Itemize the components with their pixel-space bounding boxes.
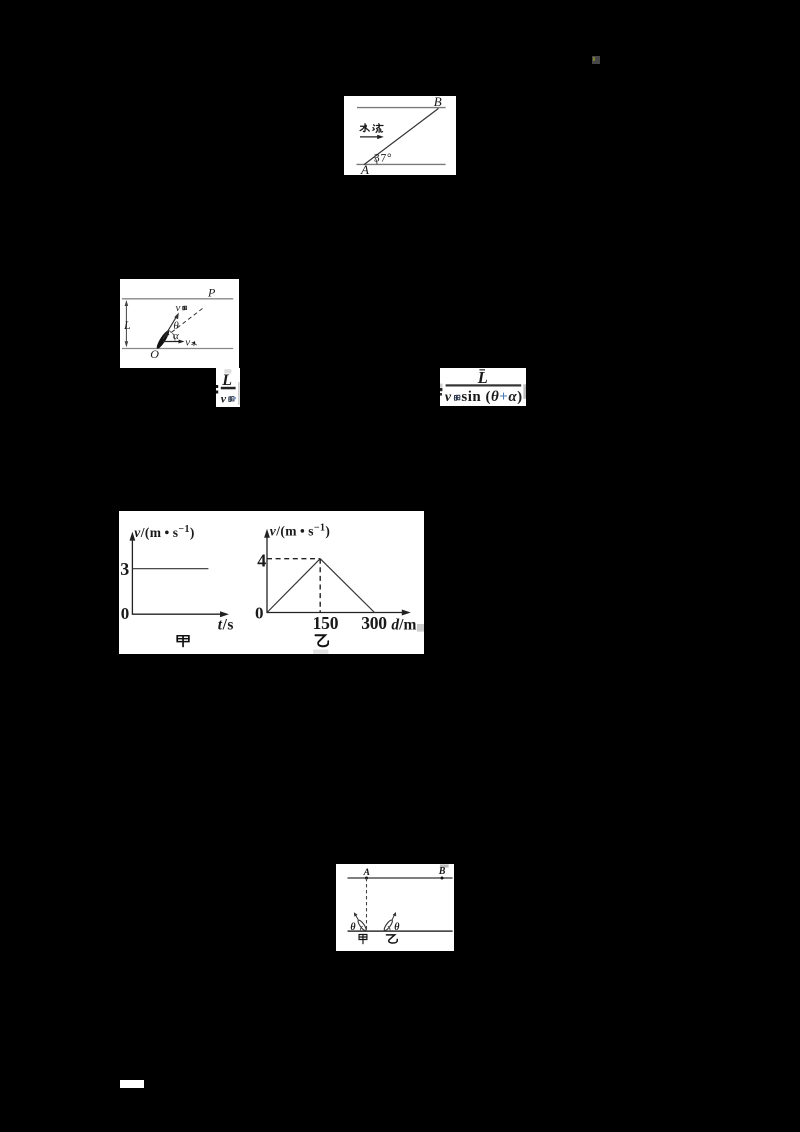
grey right bar [523, 384, 526, 399]
svg-text:θ: θ [394, 922, 400, 933]
svg-text:37°: 37° [374, 152, 393, 164]
glyph defs [0, 0, 1, 1]
dashed vertical from A [365, 878, 367, 931]
formula: L over v-chuan sin(theta+alpha) [440, 368, 526, 406]
svg-text:B: B [437, 866, 445, 877]
falling line [320, 559, 374, 613]
bottom bank line [357, 163, 446, 165]
svg-text:A: A [362, 868, 369, 878]
boat (filled) [155, 329, 171, 350]
label yi [386, 935, 397, 943]
grey left tab [440, 384, 442, 388]
svg-text:v: v [445, 390, 452, 405]
path A to B [364, 108, 439, 164]
formula strip: L over v-chuan [216, 368, 240, 407]
boat jia (left, tilted up-left) [356, 919, 367, 932]
water velocity arrow [163, 341, 182, 343]
svg-text:B: B [434, 96, 442, 109]
bottom figure: two boats [336, 864, 454, 952]
boat yi (right, tilted up-right) [382, 919, 393, 932]
overline on L [479, 369, 485, 370]
graphs box [119, 511, 424, 654]
figure 1: river crossing A-B [344, 96, 456, 175]
flow arrow [360, 136, 380, 138]
fraction bar [220, 386, 235, 389]
svg-text:sin (θ+α): sin (θ+α) [461, 389, 522, 405]
svg-text:300: 300 [361, 613, 387, 633]
grey right edge [238, 382, 239, 405]
yi velocity arrow [392, 914, 395, 920]
boat velocity arrow [163, 316, 177, 339]
top bank line [347, 877, 452, 879]
svg-text:d/m: d/m [391, 617, 416, 634]
jia velocity arrow [355, 915, 358, 921]
equals fragment [216, 385, 218, 388]
alpha arc [173, 333, 176, 340]
svg-text:0: 0 [255, 603, 264, 622]
white rect bottom left [120, 1080, 144, 1088]
left graph x-axis [132, 613, 223, 615]
svg-text:v/(m • s−1): v/(m • s−1) [134, 524, 195, 540]
theta arc [169, 330, 172, 333]
v=3 line [132, 568, 208, 570]
svg-text:t/s: t/s [218, 616, 234, 633]
label yi [315, 635, 328, 646]
fraction bar [446, 384, 522, 386]
right graph y-axis [266, 537, 268, 613]
svg-text:A: A [360, 162, 369, 175]
grey tab [224, 369, 231, 373]
width arrow L [125, 302, 127, 346]
point A [365, 876, 368, 879]
svg-text:P: P [207, 285, 216, 299]
svg-text:L: L [221, 372, 232, 389]
label jia [359, 934, 367, 943]
label jia [177, 636, 189, 647]
point B [440, 876, 443, 879]
grey square right edge [417, 624, 424, 632]
equals fragment [440, 388, 442, 391]
top bank line [357, 107, 446, 109]
svg-text:v/(m • s−1): v/(m • s−1) [270, 523, 331, 539]
grey tab above B [440, 864, 449, 867]
svg-text:4: 4 [257, 550, 266, 570]
right arc [387, 926, 389, 930]
svg-text:0: 0 [121, 604, 130, 623]
left graph y-axis [131, 539, 133, 615]
svg-text:v: v [176, 302, 181, 314]
dashed vertical at 150 [319, 559, 321, 613]
rising line [267, 559, 320, 613]
svg-text:v: v [185, 337, 190, 349]
svg-text:θ: θ [350, 922, 356, 933]
grey smudge under yi [313, 650, 328, 654]
figure 2: boat velocity diagram [120, 279, 239, 368]
right graph x-axis [267, 612, 405, 614]
svg-text:3: 3 [120, 559, 129, 579]
grey icon top right [592, 56, 600, 65]
top bank line P [122, 298, 233, 300]
svg-text:150: 150 [313, 613, 339, 633]
resultant dashed line [166, 307, 204, 336]
bottom bank line [347, 930, 452, 932]
bottom bank line [122, 348, 233, 350]
angle arc 37 [374, 157, 377, 165]
svg-text:v: v [220, 391, 226, 405]
left arc [360, 926, 362, 930]
svg-text:L: L [123, 318, 131, 332]
dashed level 4 [267, 558, 320, 560]
label shuiliu (water flow) [360, 124, 369, 132]
svg-text:O: O [150, 347, 159, 361]
